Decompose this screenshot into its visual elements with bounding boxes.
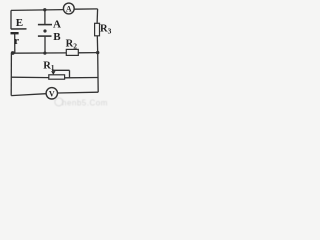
wire: capacitor bottom lead to middle wire <box>44 37 46 54</box>
wire: middle horizontal wire right part (R2 box to right border) <box>78 52 98 54</box>
wire: capacitor top lead from top border <box>44 10 46 24</box>
svg-text:A: A <box>66 4 72 13</box>
wire: top border right segment (ammeter to TR corner) <box>74 8 97 10</box>
wire: right border mid (R3 bottom to middle junction) <box>96 36 98 53</box>
svg-text:V: V <box>49 89 55 98</box>
wire: battery negative lead down to middle wire <box>14 34 16 53</box>
dot between capacitor plates <box>43 29 46 32</box>
wire: R1 left lead from left border <box>11 76 49 78</box>
wire: R1 right lead to right border <box>65 77 99 79</box>
battery E long plate <box>11 28 27 30</box>
wire: right border upper (TR corner to R3 top) <box>96 9 99 23</box>
wire: left border top segment (TL corner to battery plate) <box>10 10 12 29</box>
capacitor plate A <box>38 24 52 26</box>
wire: R1 slider top bar <box>52 69 70 71</box>
rheostat R1 slider arrow <box>51 71 55 75</box>
junction node: middle wire / right border <box>96 51 99 54</box>
svg-text:B: B <box>53 31 61 43</box>
wire: right border lower (middle junction to R1 junction to BR corner) <box>97 53 100 93</box>
svg-text:E: E <box>16 17 23 29</box>
junction node: middle wire / left border / battery lead <box>11 51 15 55</box>
wire: bottom border right (voltmeter to BR corner) <box>58 91 99 94</box>
svg-text:A: A <box>53 19 61 31</box>
wire: R1 slider down segment <box>69 70 71 77</box>
wire: top border left segment (to ammeter) <box>11 9 63 12</box>
wire: bottom border left (BL corner to voltmeter) <box>11 94 46 96</box>
resistor R3 box <box>95 23 100 36</box>
resistor R2 box <box>66 49 78 55</box>
voltmeter U: circle <box>46 88 57 99</box>
wire: left border bottom segment (middle junction to BL corner) <box>10 53 12 96</box>
capacitor plate B <box>38 35 52 37</box>
ammeter U: circle <box>63 3 74 14</box>
junction node: top border / capacitor lead <box>43 8 46 11</box>
wire: middle horizontal wire left part (to R2 box) <box>11 52 66 54</box>
background <box>0 0 113 107</box>
svg-text:henb5.Com: henb5.Com <box>62 99 108 107</box>
svg-text:r: r <box>14 35 19 47</box>
battery E short thick plate <box>11 32 19 34</box>
watermark logo circle <box>55 98 108 108</box>
rheostat R1 box <box>49 75 65 79</box>
junction node: middle wire / capacitor lead <box>43 52 46 55</box>
